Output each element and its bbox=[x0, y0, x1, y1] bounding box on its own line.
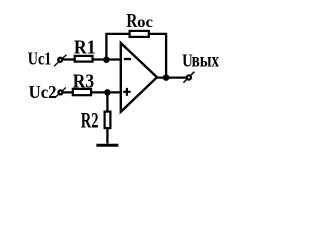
wire: feedback loop (up from node A, across the top, down to output node) bbox=[106, 34, 166, 78]
svg-text:Uс2: Uс2 bbox=[29, 82, 57, 102]
resistor R2 bbox=[81, 107, 111, 132]
terminal: output Uвых bbox=[182, 50, 219, 82]
terminal: input Uc1 bbox=[28, 48, 67, 68]
svg-text:R3: R3 bbox=[73, 70, 94, 92]
wire: top input wire from Uc1 terminal to op-amp inverting input bbox=[63, 58, 121, 60]
svg-text:Uс1: Uс1 bbox=[28, 48, 52, 68]
svg-text:R2: R2 bbox=[81, 107, 99, 132]
terminal: input Uc2 bbox=[29, 82, 66, 102]
node B: junction of R3, R2 and non-inverting input bbox=[104, 89, 111, 96]
op-amp U1 bbox=[121, 43, 157, 112]
svg-text:R1: R1 bbox=[74, 36, 96, 58]
resistor R1 bbox=[74, 36, 96, 61]
svg-text:R: R bbox=[126, 10, 137, 32]
resistor R3 bbox=[73, 70, 94, 95]
svg-text:ос: ос bbox=[137, 14, 153, 31]
resistor Roc (feedback) bbox=[126, 10, 153, 37]
ground bbox=[96, 144, 118, 147]
node A: junction of R1, Roc and inverting input bbox=[103, 56, 110, 63]
wire: output wire from op-amp apex to output terminal bbox=[156, 76, 186, 78]
svg-text:вых: вых bbox=[192, 50, 220, 71]
wire: bottom input wire from Uc2 terminal to op-amp non-inverting input bbox=[63, 91, 121, 93]
wire: R2 branch from node B down to ground bbox=[106, 92, 108, 143]
node: output junction of feedback and output wire bbox=[163, 74, 170, 81]
